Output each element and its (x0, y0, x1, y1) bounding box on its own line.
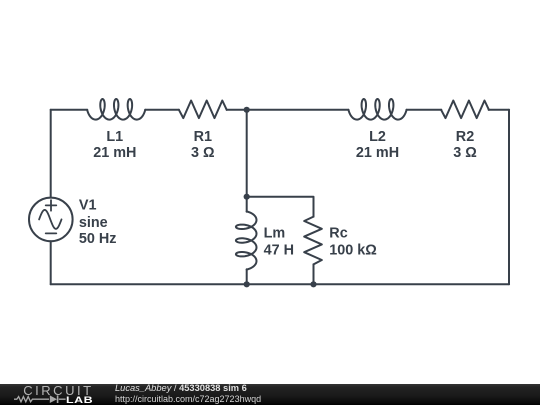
wire bottom horizontal (51, 283, 509, 285)
footer bar (0, 384, 540, 405)
wire left vertical lower (50, 241, 52, 284)
wire left vertical upper (50, 110, 52, 198)
svg-text:Rc: Rc (329, 226, 347, 242)
svg-text:50 Hz: 50 Hz (79, 231, 117, 247)
svg-text:21 mH: 21 mH (93, 145, 136, 161)
wire middle vertical from top node (246, 110, 248, 212)
wire Lm bottom (246, 269, 248, 284)
wire R2 to right corner (489, 109, 509, 111)
node bottom-left junction (244, 281, 250, 287)
inductor L2 (348, 99, 406, 120)
voltage source V1 (29, 198, 73, 242)
footer attribution line (115, 383, 247, 393)
wire Rc bottom (313, 264, 315, 284)
wire L1 to R1 (145, 109, 179, 111)
svg-text:Lm: Lm (264, 226, 286, 242)
wire top-left horizontal (51, 109, 87, 111)
svg-text:sine: sine (79, 215, 108, 231)
wire node to Rc top (247, 197, 314, 217)
svg-text:L1: L1 (106, 129, 123, 145)
svg-text:3 Ω: 3 Ω (453, 145, 477, 161)
wire R1 to L2 through node (227, 109, 349, 111)
node bottom-right junction (310, 281, 316, 287)
wire L2 to R2 (407, 109, 442, 111)
svg-text:R2: R2 (456, 129, 474, 145)
svg-text:21 mH: 21 mH (356, 145, 399, 161)
footer url line (115, 394, 261, 404)
svg-text:L2: L2 (369, 129, 386, 145)
wire right vertical (508, 110, 510, 284)
CircuitLab logo text LAB (66, 395, 93, 405)
inductor Lm (236, 211, 257, 269)
CircuitLab logo text CIRCUIT (23, 383, 93, 398)
svg-text:3 Ω: 3 Ω (191, 145, 215, 161)
resistor R2 (441, 101, 489, 119)
CircuitLab logo waveform (10, 384, 70, 405)
resistor R1 (179, 101, 227, 119)
resistor Rc (304, 217, 322, 265)
inductor L1 (87, 99, 145, 120)
node middle junction (244, 194, 250, 200)
svg-text:100 kΩ: 100 kΩ (329, 243, 377, 259)
node top junction (244, 107, 250, 113)
svg-text:47 H: 47 H (264, 243, 294, 259)
svg-text:R1: R1 (194, 129, 212, 145)
svg-text:V1: V1 (79, 198, 97, 214)
